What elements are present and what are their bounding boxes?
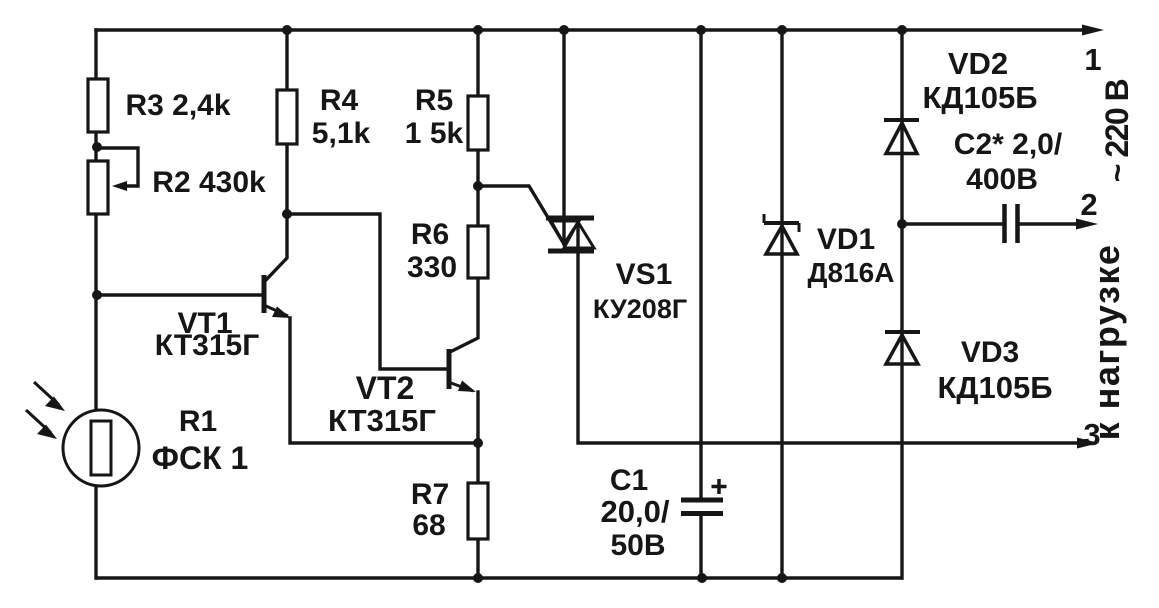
svg-text:КД105Б: КД105Б [922,80,1037,115]
svg-text:R1: R1 [179,405,217,438]
svg-text:R2 430k: R2 430k [152,166,266,199]
svg-text:330: 330 [407,251,457,284]
svg-text:R4: R4 [320,84,359,117]
svg-text:~ 220 В: ~ 220 В [1099,79,1135,182]
svg-text:50В: 50В [610,529,665,562]
svg-text:ФСК 1: ФСК 1 [152,440,249,476]
svg-text:КУ208Г: КУ208Г [593,294,687,324]
svg-text:Д816А: Д816А [808,257,895,288]
svg-text:КТ315Г: КТ315Г [155,329,259,362]
svg-text:5,1k: 5,1k [312,117,371,150]
svg-text:2: 2 [1080,187,1097,222]
svg-text:C2* 2,0/: C2* 2,0/ [954,128,1063,161]
svg-text:20,0/: 20,0/ [601,494,670,529]
svg-text:R6: R6 [411,218,449,251]
svg-text:68: 68 [412,509,445,542]
svg-text:к нагрузке: к нагрузке [1086,244,1127,441]
svg-text:VT2: VT2 [356,370,415,406]
svg-text:КТ315Г: КТ315Г [328,403,436,438]
svg-text:КД105Б: КД105Б [937,370,1052,405]
svg-text:VD1: VD1 [817,223,875,256]
svg-text:R3 2,4k: R3 2,4k [125,89,230,122]
svg-text:400В: 400В [966,163,1038,196]
svg-text:R7: R7 [411,478,449,511]
svg-text:VD3: VD3 [961,336,1019,369]
svg-text:1 5k: 1 5k [405,117,464,150]
svg-text:VS1: VS1 [616,258,673,291]
svg-text:C1: C1 [610,464,648,497]
svg-text:VD2: VD2 [948,46,1008,81]
svg-text:R5: R5 [415,84,453,117]
svg-text:1: 1 [1084,42,1101,77]
